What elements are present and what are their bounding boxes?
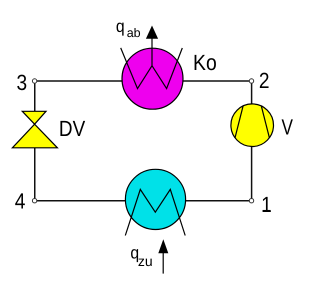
svg-text:2: 2 [259, 68, 270, 93]
svg-text:4: 4 [15, 189, 26, 214]
svg-text:zu: zu [138, 253, 153, 269]
svg-text:ab: ab [127, 26, 141, 40]
svg-text:DV: DV [59, 116, 86, 141]
svg-text:Ko: Ko [193, 50, 217, 75]
svg-text:q: q [116, 16, 125, 36]
svg-text:3: 3 [17, 70, 28, 95]
svg-text:1: 1 [261, 192, 272, 217]
svg-text:V: V [282, 115, 294, 140]
